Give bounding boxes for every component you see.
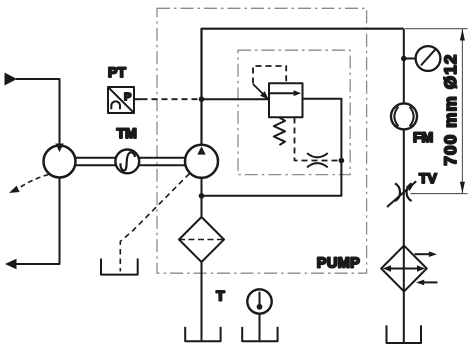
svg-text:PT: PT <box>108 64 126 80</box>
motor M circle <box>44 146 76 178</box>
wire inlet to motor <box>16 79 60 146</box>
pilot arrow into valve <box>253 84 264 95</box>
svg-text:T: T <box>216 287 225 303</box>
arrow into motor M <box>55 144 63 153</box>
wire right main pipe <box>403 29 405 343</box>
svg-text:PUMP: PUMP <box>317 256 361 272</box>
wire filter to tank <box>201 262 203 341</box>
PT sensing line (dashed) <box>134 98 142 100</box>
wire pump suction to filter <box>201 178 203 217</box>
PT diagonal <box>108 87 134 113</box>
pump P circle <box>185 145 218 178</box>
relief valve V1 body <box>269 83 303 117</box>
svg-text:P: P <box>124 91 131 103</box>
measuring tank <box>101 259 138 275</box>
relief valve pilot line (dashed) <box>253 66 286 84</box>
inlet arrow (top left) <box>5 73 18 86</box>
tank T1 (suction) <box>185 327 220 341</box>
pressure gauge <box>416 46 441 71</box>
arrowhead on motor drain <box>9 186 20 193</box>
wire relief valve return <box>202 99 342 196</box>
flow meter FM <box>391 103 417 129</box>
wire motor suction to left <box>17 178 60 265</box>
outer boundary box PUMP <box>157 8 367 273</box>
pump case drain (dashed) <box>120 174 189 272</box>
wire pump outlet to top and right <box>202 29 404 146</box>
svg-text:700 mm Ø12: 700 mm Ø12 <box>441 53 460 165</box>
orifice (restriction) <box>307 153 328 167</box>
node suction / return junction <box>199 193 205 199</box>
HX inner double arrow <box>388 268 420 270</box>
relief valve flow arrow <box>269 92 295 94</box>
thermometer stem <box>259 314 261 342</box>
HX coolant out arrow <box>415 253 430 255</box>
node pump outlet / PT junction <box>199 96 205 102</box>
wire to relief valve <box>202 98 270 100</box>
TM sine symbol <box>120 152 135 170</box>
svg-text:TV: TV <box>419 170 438 186</box>
dimension extension line bottom <box>411 193 468 195</box>
filter element (dashed) <box>179 239 224 241</box>
drain line (dashed) from motor <box>18 175 49 189</box>
wire to gauge <box>404 58 416 60</box>
relief valve spring <box>274 118 285 146</box>
filter F diamond <box>179 217 224 262</box>
shaft TM to pump (double line) <box>139 158 185 166</box>
dimension line 700 mm <box>461 29 463 194</box>
relief valve drain pilot (dashed) to orifice <box>295 118 342 161</box>
torque meter TM circle <box>115 150 139 174</box>
tank T3 (right) <box>387 325 422 343</box>
svg-text:TM: TM <box>117 125 137 141</box>
throttle valve TV arcs <box>395 183 412 201</box>
shaft motor to TM (double line) <box>76 158 116 166</box>
pump outlet arrow (up) <box>197 146 205 154</box>
inner boundary box (relief valve subassembly) <box>238 50 350 174</box>
dimension extension line top <box>405 28 468 30</box>
node orifice / return junction <box>339 158 345 164</box>
PT arch symbol <box>111 101 120 109</box>
pressure transducer PT box <box>108 87 134 113</box>
HX coolant in arrow <box>422 281 438 283</box>
svg-text:FM: FM <box>413 129 433 145</box>
throttle valve adjust arrow <box>387 181 416 207</box>
node gauge junction <box>401 56 407 62</box>
arrowhead suction outlet <box>5 259 17 270</box>
thermometer <box>247 289 271 313</box>
heat exchanger HX diamond <box>381 246 427 292</box>
tank T2 (thermometer) <box>242 327 277 341</box>
